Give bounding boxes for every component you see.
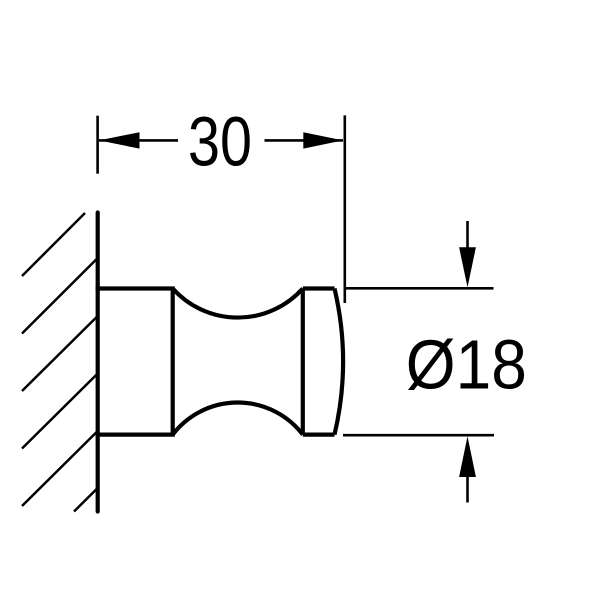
dimension line 30 left segment [99, 139, 178, 142]
right arrowhead of dimension 30 [303, 132, 343, 148]
hatch line 6 (clipped at wall bottom) [74, 488, 98, 512]
bottom extension line of dimension 18 [343, 434, 494, 437]
hatch line 2 [22, 258, 98, 334]
left arrowhead of dimension 30 [99, 132, 140, 148]
bottom arrowhead of dimension 18 (pointing up) [459, 436, 476, 477]
spool top concave arc [173, 289, 303, 318]
cap top edge [303, 286, 335, 290]
knob base bottom edge [98, 433, 173, 437]
left extension line of dimension 30 [96, 116, 99, 174]
svg-text:Ø18: Ø18 [406, 326, 527, 404]
cap bottom edge [303, 433, 335, 437]
dimension line 30 right segment [265, 139, 344, 142]
top arrowhead of dimension 18 (pointing down) [459, 247, 476, 287]
svg-text:30: 30 [188, 103, 252, 181]
knob base/spool divider line [171, 289, 175, 435]
bottom arrow tail of dimension 18 [466, 475, 469, 503]
cap front line [301, 289, 305, 435]
hatch line 3 [22, 316, 98, 391]
top extension line of dimension 18 [344, 287, 494, 290]
cap convex outer edge [335, 289, 344, 435]
wall line [96, 213, 100, 512]
right extension line of dimension 30 [343, 115, 346, 303]
knob base top edge [98, 286, 173, 290]
hatch line 4 [22, 374, 98, 449]
hatch line 1 (clipped at wall top) [22, 213, 85, 276]
spool bottom concave arc [173, 403, 303, 435]
hatch line 5 [22, 431, 98, 506]
top arrow tail of dimension 18 [466, 221, 469, 250]
